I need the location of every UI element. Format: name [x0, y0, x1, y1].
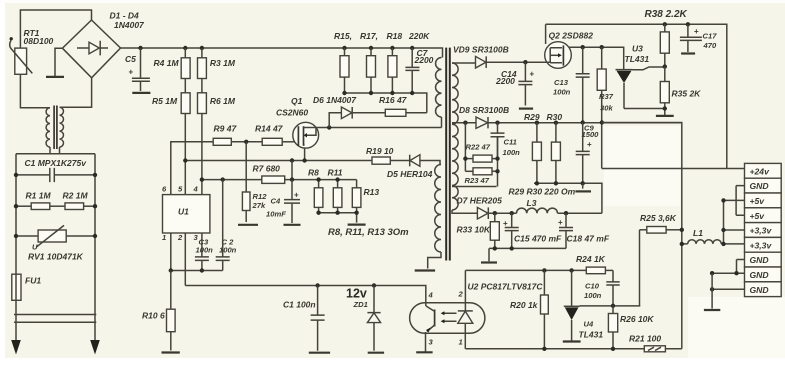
- svg-text:C15 470 mF: C15 470 mF: [514, 233, 562, 243]
- wire Q2 emitter right: [569, 47, 624, 69]
- svg-text:GND: GND: [750, 181, 769, 191]
- svg-text:100n: 100n: [196, 246, 214, 255]
- resistor R29: [536, 123, 538, 142]
- svg-text:R30: R30: [547, 112, 563, 122]
- resistor R2: [50, 205, 65, 207]
- svg-text:GND: GND: [750, 285, 769, 295]
- AC terminal arrow left: [11, 340, 21, 355]
- svg-text:C5: C5: [125, 54, 136, 64]
- bridge rectifier D1-D4 diamond: [62, 20, 120, 78]
- node R17 tap: [369, 46, 373, 50]
- node C5 tap: [138, 46, 142, 50]
- svg-text:R38 2.2K: R38 2.2K: [645, 9, 688, 20]
- choke core: [54, 106, 57, 150]
- node C13 tap: [581, 45, 585, 49]
- diode D6: [341, 107, 352, 119]
- ground bar sense resistors: [348, 224, 366, 226]
- node C15 minus: [510, 246, 514, 250]
- wire gnd pin8: [712, 272, 744, 274]
- node R18 tap: [390, 46, 394, 50]
- wire pin5 net: [185, 160, 372, 162]
- svg-text:R17,: R17,: [360, 31, 378, 41]
- svg-text:D5 HER104: D5 HER104: [387, 169, 433, 179]
- node C14 tap: [523, 60, 527, 64]
- svg-text:12v: 12v: [346, 287, 367, 301]
- svg-text:U: U: [32, 243, 38, 252]
- wire R12 column: [245, 142, 247, 192]
- node R37 rail junction: [600, 120, 604, 124]
- svg-text:220K: 220K: [408, 31, 430, 41]
- svg-text:2200: 2200: [414, 55, 434, 65]
- svg-text:+3,3v: +3,3v: [750, 240, 773, 250]
- connector pin 3 +5v: [745, 193, 782, 208]
- node 5v pin3 bracket: [721, 198, 725, 202]
- node R33 tap: [493, 211, 497, 215]
- node C7 tap: [410, 46, 414, 50]
- background white patches: [604, 126, 680, 206]
- svg-text:R29 R30 220 Om: R29 R30 220 Om: [509, 187, 576, 197]
- svg-text:+5v: +5v: [750, 196, 766, 206]
- svg-text:4: 4: [193, 185, 199, 194]
- node R15 bottom: [342, 91, 346, 95]
- wire choke bottoms to filter rail: [16, 147, 95, 154]
- fuse FU1: [12, 274, 21, 300]
- ground bar aux winding: [415, 269, 435, 271]
- svg-text:R5 1M: R5 1M: [152, 96, 178, 106]
- node R13 bottom: [354, 211, 358, 215]
- capacitor C7: [405, 48, 419, 93]
- svg-text:U3: U3: [632, 44, 643, 54]
- node R30 bottom: [554, 181, 558, 185]
- resistor R9: [213, 138, 231, 145]
- capacitor C13: [576, 47, 590, 122]
- svg-text:R16 47: R16 47: [379, 95, 408, 105]
- svg-text:100n: 100n: [553, 88, 571, 97]
- resistor R24: [586, 267, 605, 274]
- connector pin 6 +3,3v: [745, 237, 782, 252]
- svg-text:RV1 10D471K: RV1 10D471K: [28, 252, 84, 262]
- node R30 top: [554, 121, 558, 125]
- wire Q1 source: [304, 148, 306, 160]
- wire pin1 net: [171, 270, 223, 272]
- wire bridge bottom to choke right winding: [60, 78, 92, 108]
- wire C9 ground stub: [582, 183, 584, 188]
- ground bar C4: [284, 224, 301, 226]
- ground bar R35: [656, 115, 674, 117]
- node R1 left: [14, 204, 18, 208]
- svg-text:GND: GND: [750, 270, 769, 280]
- node R35 bottom: [663, 106, 667, 110]
- resistor R38: [664, 24, 666, 32]
- wire C15 C18 minus rail: [489, 247, 566, 249]
- ground bar C5: [132, 92, 150, 94]
- capacitor C15: [505, 213, 519, 248]
- wire U1 pin6 to R9: [171, 142, 213, 195]
- resistor R30: [555, 123, 557, 142]
- svg-text:R24 1K: R24 1K: [576, 254, 606, 264]
- wire R8 R11 R13 bottoms: [319, 213, 357, 223]
- wire RT1 bottom to choke left winding: [20, 74, 50, 108]
- diode VD9: [476, 56, 486, 68]
- opto phototransistor: [426, 304, 434, 311]
- svg-text:R25 3,6K: R25 3,6K: [640, 213, 677, 223]
- node R26 bottom: [611, 347, 615, 351]
- wire Q1 drain: [316, 127, 442, 129]
- svg-text:VD9 SR3100B: VD9 SR3100B: [453, 45, 509, 55]
- svg-text:470: 470: [703, 41, 717, 50]
- connector pin 8 GND: [745, 267, 782, 282]
- svg-text:R13: R13: [364, 187, 380, 197]
- resistor R8: [318, 180, 320, 188]
- svg-text:D1 - D4: D1 - D4: [110, 11, 140, 21]
- node ZD1 tap: [372, 283, 376, 287]
- node pin1 R10: [169, 268, 173, 272]
- node R33 minus junction: [493, 246, 497, 250]
- node C18 tap: [564, 211, 568, 215]
- connector pin 9 GND: [745, 282, 782, 297]
- node R38 R35 ref: [663, 64, 667, 68]
- svg-text:TL431: TL431: [579, 330, 604, 340]
- svg-text:U1: U1: [178, 207, 189, 217]
- resistor R26: [612, 306, 614, 314]
- wire top-left from RT1 to bridge top: [20, 10, 91, 48]
- svg-text:1: 1: [162, 233, 166, 242]
- svg-text:C4: C4: [271, 197, 281, 206]
- node C15 tap: [510, 211, 514, 215]
- svg-text:R4 1M: R4 1M: [154, 58, 180, 68]
- ground bar R12: [238, 224, 258, 226]
- svg-text:R14 47: R14 47: [255, 124, 284, 134]
- zener ZD1: [367, 286, 380, 313]
- node R3 tap: [200, 46, 204, 50]
- node pin5 wire left: [183, 158, 187, 162]
- node gnd pin9: [710, 287, 714, 291]
- wire gnd pin2 to 5v pin4 bracket: [736, 186, 744, 216]
- node gnd pin8 b: [734, 271, 738, 275]
- resistor R33: [494, 213, 496, 222]
- varistor RV1: [16, 235, 95, 237]
- ground bar U4: [563, 340, 581, 342]
- thermistor RT1: [15, 48, 27, 74]
- svg-text:R1 1M: R1 1M: [26, 191, 52, 201]
- svg-text:+: +: [694, 27, 699, 36]
- wire 24v pin wire: [602, 168, 745, 170]
- node R20 bottom: [542, 347, 546, 351]
- svg-text:+: +: [503, 219, 508, 228]
- node C1aux tap: [315, 283, 319, 287]
- svg-text:100n: 100n: [584, 291, 602, 300]
- resistor R1: [16, 205, 31, 207]
- svg-text:2: 2: [177, 233, 183, 242]
- svg-text:R18: R18: [387, 31, 403, 41]
- ground bar ZD1: [368, 352, 384, 354]
- wire R5 bottom to U1 pin5: [184, 114, 186, 195]
- transistor Q1: [293, 122, 319, 148]
- svg-text:+: +: [558, 218, 563, 227]
- svg-text:U4: U4: [584, 320, 594, 329]
- wire gnd pin9: [712, 288, 744, 290]
- wire connector ground stem: [711, 273, 713, 308]
- wire pin3 to C3: [201, 233, 203, 257]
- resistor R19: [372, 157, 390, 164]
- svg-text:R12: R12: [253, 192, 268, 201]
- wire D6 branch up: [329, 113, 341, 128]
- node R20 top: [542, 268, 546, 272]
- node C1 left: [14, 173, 18, 177]
- resistor R6: [201, 79, 203, 93]
- svg-text:+: +: [294, 191, 299, 200]
- resistor R37: [601, 47, 603, 69]
- top rail 24v R38 C17: [546, 24, 727, 168]
- capacitor C17: [680, 24, 702, 52]
- node R4 tap: [183, 46, 187, 50]
- capacitor C3: [195, 257, 209, 271]
- wire bridge left corner stub: [55, 48, 62, 76]
- wire R21 to rail: [665, 348, 681, 350]
- diode D8: [476, 117, 488, 128]
- bridge diode symbol: [77, 47, 89, 49]
- connector pin 4 +5v: [745, 208, 782, 223]
- wire R14 to Q1 gate: [282, 141, 294, 143]
- resistor R7: [262, 176, 285, 183]
- svg-text:Q2 2SD882: Q2 2SD882: [549, 31, 594, 41]
- svg-text:Q1: Q1: [291, 96, 303, 106]
- wire U4 ref net: [580, 305, 641, 307]
- wire U3 anode to R35 bottom: [624, 108, 665, 110]
- svg-text:GND: GND: [750, 255, 769, 265]
- svg-text:FU1: FU1: [25, 276, 41, 286]
- svg-text:08D100: 08D100: [24, 36, 54, 46]
- ground bar connector: [704, 309, 720, 311]
- svg-text:R15,: R15,: [334, 31, 352, 41]
- svg-text:U2 PC817LTV817C: U2 PC817LTV817C: [468, 281, 544, 291]
- svg-text:1: 1: [459, 338, 463, 347]
- node R15 tap: [342, 46, 346, 50]
- svg-text:R20 1k: R20 1k: [510, 300, 539, 310]
- wire pin1 down: [170, 233, 172, 271]
- wire C2 column: [222, 180, 224, 257]
- wire aux winding return: [428, 252, 441, 269]
- wire secondary mid tap: [452, 122, 476, 124]
- node R8 bottom: [316, 211, 320, 215]
- svg-text:R7 680: R7 680: [253, 164, 281, 174]
- svg-text:C1 MPX1K275v: C1 MPX1K275v: [25, 158, 88, 168]
- capacitor C1 X-cap: [16, 168, 95, 182]
- svg-text:+: +: [530, 70, 535, 79]
- wire mains double line: [14, 315, 96, 323]
- svg-text:+3,3v: +3,3v: [750, 226, 773, 236]
- svg-text:R22 47: R22 47: [466, 142, 491, 151]
- ground bar R33: [481, 261, 497, 263]
- resistor R15: [344, 48, 346, 56]
- wire main HV rail: [121, 48, 443, 58]
- wire secondary bottom tap: [452, 210, 477, 213]
- wire R22 R23 left column: [464, 123, 466, 172]
- node R38 top: [663, 22, 667, 26]
- node RV1 left: [14, 234, 18, 238]
- node C17 top: [686, 22, 690, 26]
- svg-text:+: +: [129, 68, 134, 77]
- svg-text:TL431: TL431: [625, 54, 650, 64]
- svg-text:R21 100: R21 100: [629, 334, 661, 344]
- svg-text:L1: L1: [693, 228, 703, 238]
- resistor R22: [465, 158, 473, 160]
- transformer primary winding: [436, 58, 442, 118]
- node D8 rail winding tap: [463, 121, 467, 125]
- resistor R13: [356, 180, 358, 188]
- resistor R20: [543, 270, 545, 295]
- resistor R14: [262, 138, 282, 145]
- node R17 bottom: [369, 91, 373, 95]
- IC U1: [163, 195, 210, 233]
- wire R29 R30 bottom rail: [534, 183, 602, 213]
- node C13 bottom: [581, 120, 585, 124]
- wire D8 rail: [452, 122, 682, 124]
- svg-text:L3: L3: [527, 198, 537, 208]
- transformer secondary winding: [452, 63, 458, 210]
- svg-text:R19 10: R19 10: [366, 146, 394, 156]
- node sense tap: [290, 158, 294, 162]
- svg-text:C13: C13: [554, 78, 569, 87]
- svg-text:R9 47: R9 47: [214, 124, 238, 134]
- node C9 bottom: [581, 181, 585, 185]
- connector pin 1 +24v: [745, 163, 782, 178]
- capacitor C1 100n: [311, 286, 325, 351]
- wire secondary top tap: [452, 62, 476, 64]
- resistor R35: [664, 67, 666, 82]
- wire R6 bottom to U1 pin4: [201, 114, 203, 195]
- wire R19 to D5: [390, 160, 409, 162]
- common-mode choke right winding: [60, 107, 64, 147]
- node RV1 right: [93, 234, 97, 238]
- ground bar opto pin3: [416, 351, 432, 353]
- node R29 top: [535, 121, 539, 125]
- node R37 tap: [600, 45, 604, 49]
- wire U2 cathode net: [465, 348, 644, 350]
- wire U2 anode net: [465, 269, 586, 271]
- transistor Q2: [545, 42, 572, 69]
- node R25 right: [680, 228, 684, 232]
- fusible resistor R21: [644, 346, 665, 352]
- node pin4 tap: [200, 177, 204, 181]
- ground bar R10: [162, 351, 180, 353]
- resistor R25: [640, 229, 647, 231]
- svg-text:4: 4: [428, 291, 434, 300]
- node R11 bottom: [335, 211, 339, 215]
- ground bar C1 100n: [309, 352, 330, 354]
- node R23 right: [495, 169, 499, 173]
- wire R22 R23 right column: [492, 137, 498, 187]
- node R18 bottom: [390, 91, 394, 95]
- svg-text:D6 1N4007: D6 1N4007: [313, 95, 357, 105]
- capacitor C4: [284, 180, 300, 223]
- node 3v3 pin5 bracket: [721, 228, 725, 232]
- connector pin 7 GND: [745, 252, 782, 267]
- svg-text:R26 10K: R26 10K: [620, 314, 654, 324]
- inductor L3: [517, 208, 558, 213]
- shunt regulator U4: [571, 270, 573, 306]
- resistor R17: [370, 48, 372, 56]
- resistor R5: [184, 79, 186, 93]
- wire R25 feedback column: [639, 230, 641, 306]
- svg-text:2: 2: [458, 290, 464, 299]
- wire 5v output rail: [477, 212, 602, 214]
- node R22 left: [463, 156, 467, 160]
- svg-text:C11: C11: [504, 138, 517, 147]
- node Q1 drain junction: [327, 125, 331, 129]
- wire 3v3 rail vertical: [602, 123, 682, 349]
- svg-text:C1 100n: C1 100n: [283, 300, 316, 310]
- diode D5: [409, 155, 411, 167]
- svg-text:10mF: 10mF: [266, 210, 286, 219]
- wire snubber node: [345, 93, 427, 113]
- ground bar under bridge left stub: [46, 76, 64, 78]
- capacitor C5: [132, 48, 150, 91]
- svg-text:R6 1M: R6 1M: [210, 96, 236, 106]
- svg-text:R35 2K: R35 2K: [672, 89, 702, 99]
- node C10 R26 junction: [611, 304, 615, 308]
- svg-text:R33 10K: R33 10K: [457, 225, 491, 235]
- svg-text:2200: 2200: [495, 76, 515, 86]
- capacitor C9: [576, 123, 590, 184]
- ground bar C14: [519, 107, 533, 109]
- svg-text:C18 47 mF: C18 47 mF: [567, 233, 610, 243]
- svg-text:R3 1M: R3 1M: [210, 58, 236, 68]
- node U4 cathode top: [569, 268, 573, 272]
- svg-text:+: +: [587, 140, 592, 149]
- svg-text:R2 1M: R2 1M: [63, 191, 89, 201]
- svg-text:R11: R11: [328, 168, 343, 178]
- node C3 bottom: [200, 268, 204, 272]
- node R22 right: [495, 156, 499, 160]
- wire pin2 down: [184, 233, 186, 286]
- capacitor C11: [491, 123, 505, 159]
- svg-text:C17: C17: [703, 32, 718, 41]
- connector pin 2 GND: [745, 178, 782, 193]
- svg-text:1500: 1500: [582, 130, 600, 139]
- svg-text:D8 SR3100B: D8 SR3100B: [459, 105, 509, 115]
- node R9 R14 junction: [244, 140, 248, 144]
- svg-text:R8: R8: [308, 168, 319, 178]
- svg-text:R29: R29: [524, 112, 540, 122]
- connector pin 5 +3,3v: [745, 223, 782, 238]
- resistor R16: [385, 109, 406, 116]
- node C2 tap: [221, 177, 225, 181]
- wire R7 net: [202, 179, 357, 181]
- optocoupler U2 body: [410, 303, 485, 334]
- svg-text:R10 6: R10 6: [142, 311, 165, 321]
- node R11 top: [335, 177, 339, 181]
- resistor R12: [242, 192, 250, 211]
- resistor R10: [170, 271, 172, 310]
- node R29 bottom: [535, 181, 539, 185]
- svg-text:+24v: +24v: [750, 166, 771, 176]
- wire 5v pin3 to 3v3 bracket: [724, 200, 745, 244]
- svg-text:C10: C10: [585, 282, 600, 291]
- shunt regulator U3: [616, 69, 633, 71]
- svg-text:CS2N60: CS2N60: [276, 108, 308, 118]
- resistor R3: [201, 48, 203, 58]
- resistor R23: [465, 170, 473, 172]
- transformer aux winding: [435, 165, 441, 253]
- wire pin2 net 12v rail: [185, 286, 425, 305]
- node R2 right: [93, 204, 97, 208]
- wire right input rail: [94, 154, 96, 341]
- svg-text:100n: 100n: [219, 246, 237, 255]
- wire R33 ground corner: [488, 248, 490, 261]
- capacitor C18: [559, 213, 573, 248]
- opto light arrows: [444, 313, 457, 321]
